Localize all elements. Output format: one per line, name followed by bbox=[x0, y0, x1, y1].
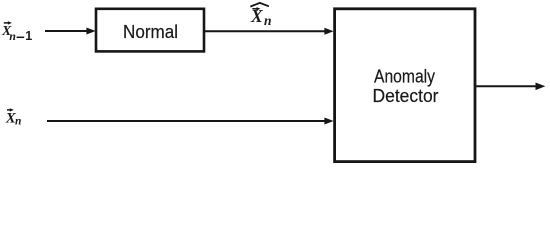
svg-text:n: n bbox=[15, 116, 21, 128]
svg-text:n: n bbox=[9, 29, 16, 43]
svg-text:Normal: Normal bbox=[123, 22, 178, 42]
svg-text:Detector: Detector bbox=[373, 86, 439, 106]
svg-text:Anomaly: Anomaly bbox=[374, 66, 435, 86]
svg-text:n: n bbox=[264, 13, 272, 28]
svg-text:1: 1 bbox=[25, 29, 32, 43]
